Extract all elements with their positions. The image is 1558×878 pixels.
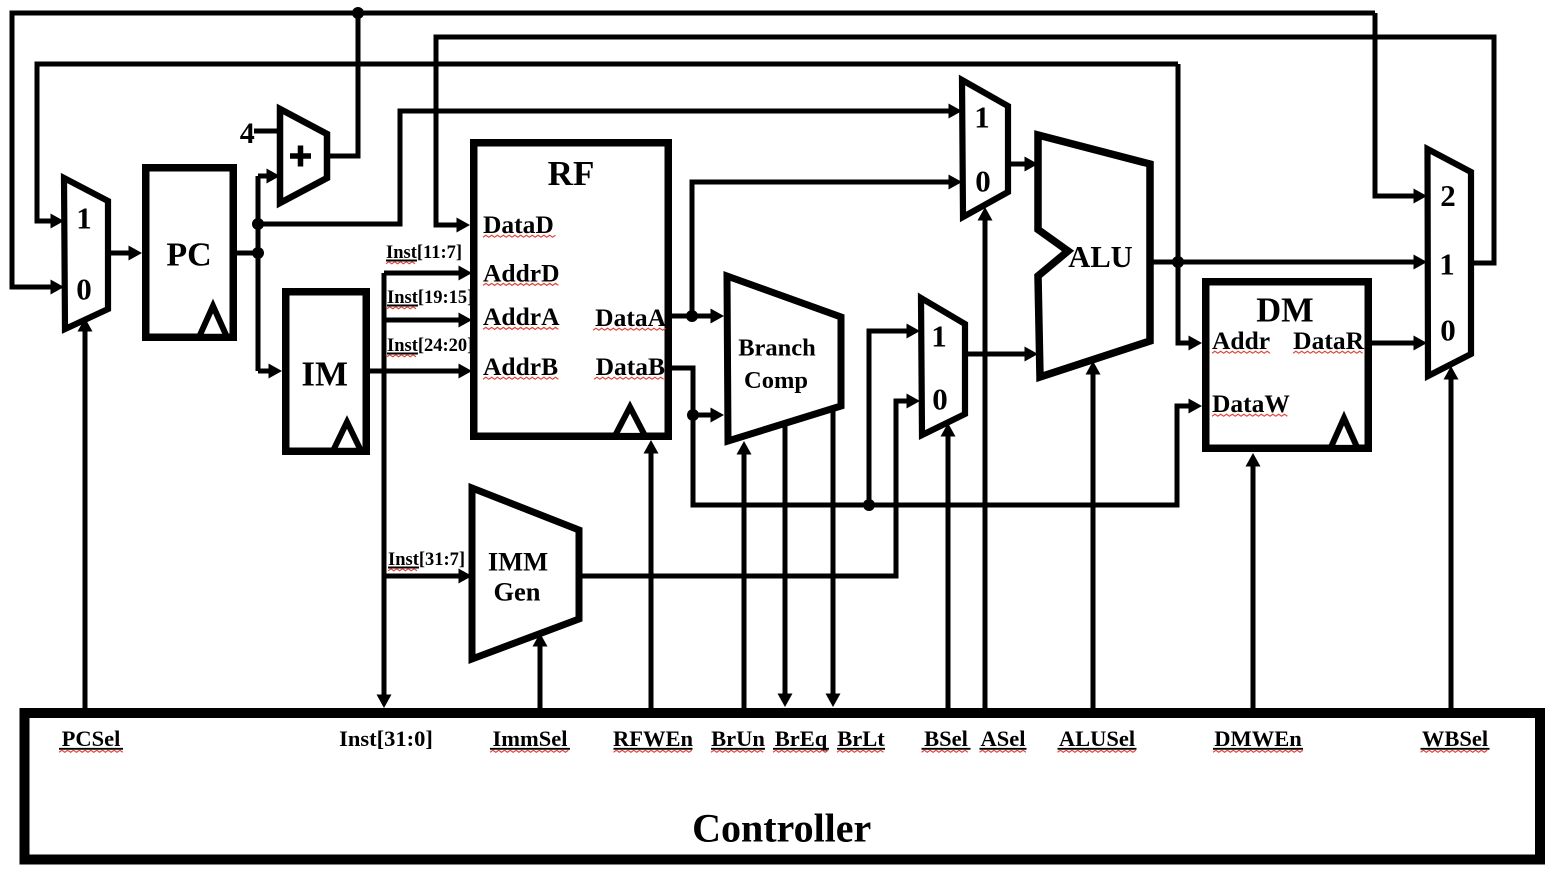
junction dot PC net at PC output [252, 247, 264, 259]
label constant 4 [240, 117, 255, 150]
svg-text:Inst[31:0]: Inst[31:0] [339, 726, 433, 751]
svg-text:WBSel: WBSel [1422, 726, 1488, 751]
wire PC+4 top line to PCSel mux input 0 [12, 13, 1375, 295]
label Inst[31:7] [388, 550, 465, 571]
wire constant 4 into adder [254, 129, 280, 134]
svg-text:1: 1 [974, 100, 990, 135]
control label ImmSel [490, 726, 570, 752]
junction dot ALU output [1172, 256, 1184, 268]
mux ASel [962, 80, 1008, 217]
svg-text:0: 0 [1440, 313, 1456, 348]
svg-text:BrUn: BrUn [711, 726, 765, 751]
alu ALU [1038, 135, 1150, 377]
svg-text:BrLt: BrLt [837, 726, 885, 751]
wire ALUSel control [1086, 361, 1101, 710]
svg-text:DataD: DataD [483, 210, 554, 239]
junction dot top line and adder output [352, 7, 364, 19]
register PC [146, 168, 234, 338]
svg-text:IMM: IMM [488, 547, 548, 577]
label Inst[19:15] [387, 288, 473, 309]
svg-text:2: 2 [1440, 178, 1456, 213]
svg-text:1: 1 [76, 201, 92, 236]
RF port label DataD [483, 210, 556, 239]
svg-text:RF: RF [548, 154, 595, 193]
svg-text:Branch: Branch [738, 335, 816, 362]
wire WBSel mux output back to RF DataD [436, 37, 1494, 263]
svg-text:AddrD: AddrD [483, 258, 560, 287]
wire DMWEn control [1246, 453, 1261, 710]
control label PCSel [59, 726, 123, 752]
control label ALUSel [1058, 726, 1137, 752]
svg-text:PC: PC [166, 237, 211, 274]
control label Inst[31:0] [339, 726, 433, 751]
wire IMM Gen output to BSel mux input 0 [580, 394, 920, 577]
RF port label DataB [594, 352, 665, 381]
junction dot PC net at adder branch [252, 218, 264, 230]
adder plus-4 [280, 109, 327, 203]
immediate generator IMM Gen [472, 488, 579, 659]
control label DMWEn [1213, 726, 1303, 752]
svg-text:AddrA: AddrA [483, 302, 560, 331]
svg-text:Controller: Controller [692, 806, 871, 851]
svg-text:BSel: BSel [924, 726, 968, 751]
svg-text:Comp: Comp [744, 367, 808, 394]
mux BSel [921, 298, 965, 435]
svg-text:DM: DM [1256, 292, 1313, 330]
RF port label AddrA [483, 302, 560, 331]
svg-text:0: 0 [932, 382, 948, 417]
control label ASel [980, 726, 1027, 752]
wire adder output to top line [327, 13, 358, 156]
DM port label DataR [1293, 326, 1365, 355]
svg-text:ALU: ALU [1068, 240, 1132, 274]
mux PCSel [64, 178, 108, 329]
controller box [25, 713, 1541, 860]
control label RFWEn [613, 726, 694, 752]
wire ASel mux output to ALU [1008, 157, 1038, 172]
wire WBSel control [1444, 366, 1459, 710]
control label BrUn [711, 726, 765, 752]
label Inst[11:7] [386, 243, 462, 264]
RF port label AddrD [483, 258, 560, 287]
svg-text:0: 0 [975, 164, 991, 199]
svg-text:DMWEn: DMWEn [1214, 726, 1302, 751]
memory IM [286, 292, 367, 452]
DM port label Addr [1212, 326, 1270, 355]
wire ALU-result feedback line to PCSel mux input 1 [37, 64, 1178, 229]
RF port label AddrB [483, 352, 558, 381]
junction dot DataA [686, 310, 698, 322]
svg-text:RFWEn: RFWEn [613, 726, 694, 751]
junction dot DataB at BranchComp input [687, 409, 699, 421]
wire ALU output to WBSel mux input 1, DM Addr and feedback [1150, 64, 1427, 351]
svg-text:PCSel: PCSel [62, 726, 121, 751]
svg-text:ALUSel: ALUSel [1059, 726, 1135, 751]
wire PCSel control [78, 318, 93, 710]
wire IM instruction bus [370, 266, 472, 709]
comparator BranchComp [727, 276, 841, 441]
control label BrEq [773, 726, 829, 752]
register file RF [474, 143, 669, 437]
RF port label DataA [593, 303, 667, 332]
label Inst[24:20] [387, 336, 473, 357]
svg-text:ImmSel: ImmSel [493, 726, 568, 751]
svg-text:DataB: DataB [596, 352, 665, 381]
svg-text:1: 1 [931, 319, 947, 354]
wire RF DataB to BranchComp, BSel mux input 1 and DM DataW [670, 324, 1202, 506]
svg-text:BrEq: BrEq [775, 726, 828, 751]
mux WBSel [1428, 149, 1472, 376]
control label BSel [922, 726, 971, 752]
wire PCSel mux output to PC input [108, 246, 142, 261]
wire ASel control [978, 207, 993, 710]
wire BSel mux output to ALU [965, 347, 1038, 362]
svg-text:Gen: Gen [493, 577, 540, 607]
wire BrLt output [826, 410, 841, 707]
memory DM [1206, 282, 1369, 449]
wire top line down to WBSel mux input 2 [1375, 13, 1427, 204]
svg-text:1: 1 [1439, 247, 1455, 282]
wire PC output trunk with junctions [237, 169, 282, 379]
svg-text:ASel: ASel [981, 726, 1026, 751]
junction dot DataB at BSel mux branch [863, 499, 875, 511]
svg-text:0: 0 [76, 272, 92, 307]
control label BrLt [837, 726, 885, 752]
wire BrUn control [737, 441, 752, 710]
svg-text:IM: IM [301, 354, 348, 393]
wire RFWEn control [644, 440, 659, 710]
wire PC to ASel mux input 1 [258, 104, 962, 225]
wire BSel control [941, 423, 956, 710]
control label WBSel [1421, 726, 1490, 752]
DM port label DataW [1212, 389, 1290, 418]
wire RF DataA to BranchComp and ASel mux input 0 [670, 175, 962, 324]
svg-text:4: 4 [240, 117, 255, 150]
wire ImmSel control [533, 633, 548, 710]
wire BrEq output [778, 425, 793, 707]
wire DM DataR to WBSel mux input 0 [1372, 336, 1427, 351]
